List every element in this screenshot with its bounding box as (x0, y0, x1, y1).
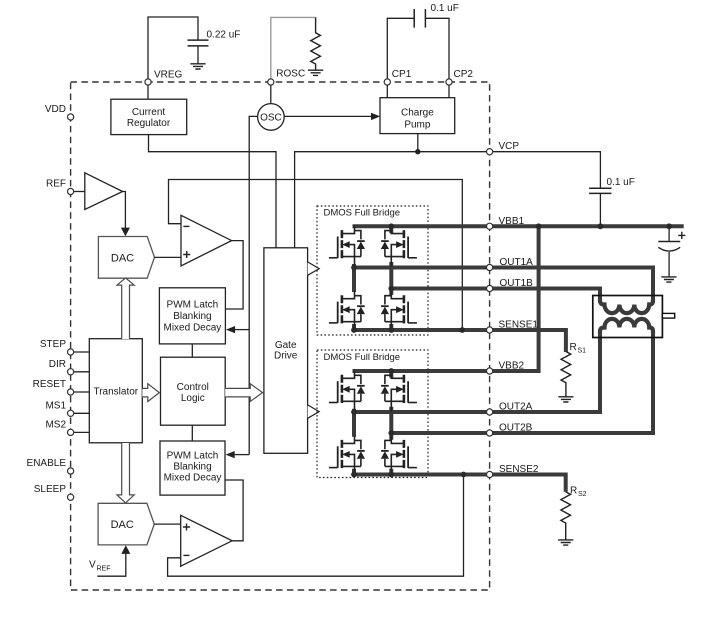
pin RESET (33, 379, 74, 395)
svg-text:STEP: STEP (40, 339, 66, 350)
pin VCP (487, 141, 520, 155)
oscillator OSC (258, 82, 285, 130)
stepper motor winding 1 (600, 299, 653, 314)
svg-text:Logic: Logic (181, 393, 205, 404)
pin ROSC (268, 69, 306, 86)
pin ENABLE (27, 458, 74, 474)
wire OUT1A (354, 268, 653, 301)
wire OSC arrow into PWM latch 1 (226, 326, 249, 333)
svg-text:OUT2A: OUT2A (499, 402, 533, 413)
op-amp REF buffer (85, 173, 123, 210)
DMOS Full Bridge 2 dotted box (317, 350, 428, 478)
svg-text:Translator: Translator (93, 386, 138, 397)
junction charge pump/VCP (415, 149, 420, 154)
wire buffer to DAC1 with arrow (121, 192, 130, 237)
wire SENSE2 feedback to comparator2 minus (168, 475, 464, 577)
pin STEP (40, 339, 74, 355)
pin MS1 (45, 400, 73, 416)
DAC U1 (98, 237, 154, 279)
pin SENSE1 (487, 320, 539, 334)
wire CP1 stub (386, 82, 388, 98)
junction OUT1A node (351, 265, 357, 271)
svg-text:Control: Control (177, 382, 209, 393)
svg-text:PWM Latch: PWM Latch (167, 451, 219, 462)
pin DIR (49, 359, 74, 375)
wire VREG to 0.22uF cap (148, 17, 198, 82)
wire VCP rail (295, 152, 601, 248)
label VREF (89, 560, 111, 573)
svg-text:VDD: VDD (45, 104, 66, 115)
capacitor C3 0.1uF right (589, 188, 611, 193)
capacitor C1 0.22uF (188, 40, 209, 46)
svg-text:0.1 uF: 0.1 uF (607, 177, 635, 188)
op-amp comparator U2 (181, 215, 232, 266)
wire DAC1 to comparator (155, 256, 182, 258)
pin SLEEP (34, 484, 74, 500)
svg-text:OUT1B: OUT1B (500, 278, 534, 289)
svg-text:REF: REF (46, 179, 66, 190)
svg-text:REF: REF (97, 566, 111, 573)
wire VBB1 rail (353, 224, 684, 228)
ground for RS2 (558, 540, 573, 545)
svg-text:OUT1A: OUT1A (500, 257, 534, 268)
wire SENSE2 (354, 475, 566, 492)
transistor Q6 (381, 371, 417, 412)
wire comparator2 output to PWM latch 2 (225, 480, 243, 541)
pin OUT2B (487, 423, 533, 437)
wire RESET to translator (71, 391, 90, 393)
svg-text:Blanking: Blanking (173, 462, 211, 473)
svg-text:DAC: DAC (111, 519, 134, 531)
block Control Logic (161, 357, 226, 425)
transistor Q5 (329, 371, 365, 412)
wire REF pin to buffer (71, 191, 85, 193)
svg-text:Pump: Pump (404, 120, 431, 131)
wire ROSC gray (271, 17, 316, 82)
svg-text:VBB2: VBB2 (499, 361, 525, 372)
junction SENSE1/Q3 source (351, 327, 357, 333)
ground for RS1 (558, 397, 573, 402)
svg-text:V: V (89, 560, 96, 571)
resistor RS2 (561, 486, 587, 540)
wire PWM1 to control logic (191, 344, 193, 357)
svg-text:ROSC: ROSC (276, 69, 305, 80)
junction SENSE2/Q8 source (388, 472, 394, 478)
block Gate Drive (264, 248, 308, 453)
pin MS2 (45, 419, 73, 435)
wire OUT2B (391, 332, 653, 434)
svg-text:Mixed Decay: Mixed Decay (163, 323, 221, 334)
svg-text:DMOS Full Bridge: DMOS Full Bridge (324, 352, 401, 363)
junction SENSE2/Q7 source (351, 472, 357, 478)
ground for ROSC resistor (308, 70, 323, 75)
svg-text:CP1: CP1 (392, 69, 412, 80)
transistor Q7 (329, 436, 365, 477)
stepper motor body (593, 296, 663, 338)
wire VREF to DAC2 with arrow (97, 545, 130, 576)
junction OUT2B node (388, 430, 394, 436)
svg-text:DMOS Full Bridge: DMOS Full Bridge (324, 208, 401, 219)
svg-text:R: R (570, 342, 577, 353)
junction VBB1/bulk cap (666, 223, 672, 229)
svg-text:DAC: DAC (111, 253, 134, 265)
block Charge Pump (380, 98, 455, 134)
junction SENSE1/Q4 source (388, 327, 394, 333)
wire comparator1 output to PWM latch 1 (225, 241, 243, 309)
ground for bulk capacitor (661, 277, 676, 282)
pin VBB2 (487, 361, 525, 375)
DMOS Full Bridge 1 dotted box (317, 206, 428, 335)
svg-text:VCP: VCP (499, 141, 520, 152)
pin OUT1B (487, 278, 534, 292)
svg-text:0.1 uF: 0.1 uF (431, 3, 459, 14)
svg-text:VBB1: VBB1 (499, 216, 525, 227)
transistor Q3 (329, 291, 365, 332)
wire OSC to PWM latches (249, 116, 257, 454)
chip boundary dashed border (71, 82, 490, 590)
pin CP2 (446, 69, 473, 85)
svg-text:VREG: VREG (154, 70, 183, 81)
svg-text:CP2: CP2 (454, 69, 474, 80)
transistor Q1 (329, 226, 365, 267)
svg-text:0.22 uF: 0.22 uF (207, 30, 241, 41)
wire OSC to charge pump with arrow (284, 113, 380, 120)
capacitor electrolytic bulk (658, 226, 685, 276)
wire current regulator to gate drive (149, 135, 277, 248)
stepper motor shaft (662, 313, 674, 318)
wire MS2 to translator (71, 431, 90, 433)
wire VREG to current regulator (147, 82, 149, 99)
svg-text:Current: Current (132, 107, 166, 118)
capacitor C2 0.1uF (414, 9, 425, 28)
junction VBB1/VBB2 tap (536, 223, 542, 229)
wire bridge1 column segments (354, 226, 391, 331)
svg-text:RESET: RESET (33, 379, 66, 390)
wire charge pump to VCP rail (417, 134, 419, 152)
junction VBB1/C3 (598, 223, 604, 229)
svg-text:SENSE1: SENSE1 (499, 320, 539, 331)
open arrow translator to DAC2 (117, 443, 134, 503)
pin VDD (45, 104, 74, 120)
svg-text:R: R (570, 486, 577, 497)
resistor RS1 (561, 342, 586, 397)
wire DAC2 to comparator2 (154, 523, 180, 525)
svg-text:S2: S2 (578, 491, 587, 498)
svg-text:MS1: MS1 (45, 400, 66, 411)
junction VBB2/Q6 drain (388, 368, 394, 374)
junction SENSE1 feedback (459, 327, 465, 333)
open arrow control logic to gate drive (225, 384, 262, 402)
block Current Regulator (111, 99, 187, 134)
pin OUT2A (487, 402, 533, 416)
transistor Q4 (381, 291, 417, 332)
wire bridge2 column segments (354, 371, 391, 476)
wire CP1-CP2 cap (387, 18, 449, 82)
wire SENSE1 (354, 330, 566, 352)
stepper motor winding 2 (600, 319, 653, 334)
svg-text:S1: S1 (578, 348, 587, 355)
transistor Q2 (381, 226, 417, 267)
svg-text:SENSE2: SENSE2 (499, 464, 539, 475)
transistor Q8 (381, 436, 417, 477)
junction OUT1B node (388, 286, 394, 292)
wire OUT1B (391, 289, 600, 301)
wire SENSE1 feedback to comparator1 minus (169, 180, 463, 331)
svg-text:Mixed Decay: Mixed Decay (164, 473, 222, 484)
pin VBB1 (487, 216, 525, 230)
pin VREG (145, 70, 183, 86)
wire control logic to PWM2 (191, 425, 193, 441)
open arrow translator to control logic (142, 384, 159, 402)
wire CP2 stub (448, 82, 450, 98)
svg-text:SLEEP: SLEEP (34, 484, 67, 495)
wire STEP to translator (71, 351, 90, 353)
svg-text:Gate: Gate (275, 340, 297, 351)
svg-text:Blanking: Blanking (173, 311, 211, 322)
svg-text:PWM Latch: PWM Latch (167, 300, 219, 311)
svg-text:Regulator: Regulator (127, 118, 171, 129)
wire MS1 to translator (71, 412, 90, 414)
block PWM Latch 2 (160, 441, 225, 495)
svg-text:Charge: Charge (401, 108, 434, 119)
svg-text:ENABLE: ENABLE (27, 458, 67, 469)
junction OUT2A node (351, 409, 357, 415)
svg-text:OSC: OSC (260, 113, 282, 124)
pin CP1 (384, 69, 411, 85)
wire DIR to translator (71, 371, 90, 373)
junction VBB1/Q2 drain (388, 223, 394, 229)
op-amp comparator U4 (181, 515, 232, 566)
wire VBB1 to VBB2 (353, 226, 539, 371)
block Translator (89, 339, 142, 443)
ground for C1 (190, 64, 205, 69)
open arrow gate drive to bridge 1 (308, 262, 320, 275)
wire OUT2A (354, 332, 600, 413)
DAC U3 (98, 503, 154, 545)
svg-text:DIR: DIR (49, 359, 66, 370)
svg-text:MS2: MS2 (45, 419, 66, 430)
open arrow translator to DAC1 (117, 278, 134, 339)
open arrow gate drive to bridge 2 (308, 405, 320, 418)
wire OSC arrow into PWM latch 2 (226, 451, 250, 458)
junction SENSE2 feedback (461, 472, 467, 478)
svg-text:Drive: Drive (274, 351, 298, 362)
pin REF (46, 179, 74, 195)
resistor ROSC (311, 17, 321, 70)
block PWM Latch 1 (159, 288, 225, 344)
svg-text:OUT2B: OUT2B (499, 423, 533, 434)
pin OUT1A (487, 257, 534, 271)
pin SENSE2 (487, 464, 539, 478)
